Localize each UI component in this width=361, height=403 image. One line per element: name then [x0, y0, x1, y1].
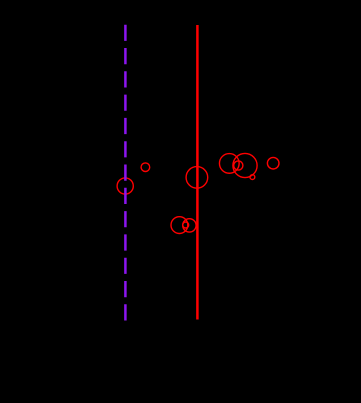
scatter circle 7	[219, 154, 239, 174]
scatter circle 2	[141, 163, 150, 172]
scatter circle 8	[234, 161, 243, 170]
scatter circle 10	[250, 175, 255, 180]
dashed vertical line (purple)	[124, 25, 127, 322]
scatter circle 5	[183, 222, 189, 228]
scatter circle 11	[267, 157, 279, 169]
scatter circle 6	[183, 219, 196, 232]
solid vertical line (red)	[196, 25, 199, 320]
scatter circle 4	[171, 217, 188, 234]
scatter circle 3	[186, 167, 208, 189]
scatter circle 1	[117, 178, 133, 194]
scatter circle 9	[233, 153, 257, 177]
